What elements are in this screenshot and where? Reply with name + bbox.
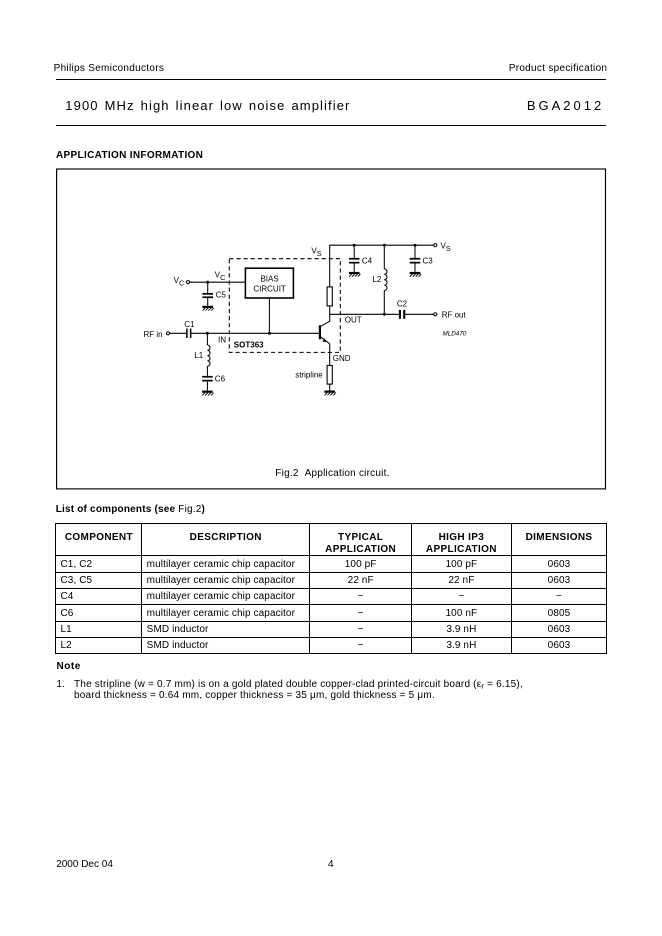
wire OUT to C2	[330, 313, 399, 315]
svg-text:C6: C6	[215, 375, 226, 384]
figure frame	[57, 169, 606, 489]
terminal RF out	[434, 313, 437, 316]
label BIAS CIRCUIT	[253, 275, 286, 294]
transistor Q1 collector lead	[321, 314, 330, 326]
package outline SOT363 dashed box	[229, 259, 340, 353]
svg-text:MLD470: MLD470	[443, 331, 467, 338]
footer	[56, 860, 113, 870]
capacitor C2	[399, 310, 405, 319]
list of components heading	[56, 505, 205, 515]
wire emitter to stripline	[329, 344, 331, 366]
wire C5 branch	[207, 282, 209, 293]
wire bias circuit output to base node	[268, 298, 270, 333]
svg-text:OUT: OUT	[345, 315, 362, 324]
svg-text:C2: C2	[397, 300, 408, 309]
page header	[54, 64, 165, 74]
note	[57, 662, 81, 672]
junction L2/OUT	[383, 313, 386, 316]
svg-text:VS: VS	[311, 246, 321, 258]
svg-text:RF out: RF out	[442, 310, 467, 319]
svg-text:L1: L1	[194, 351, 203, 360]
inductor L2	[384, 269, 387, 291]
ground (stripline)	[324, 391, 336, 396]
ground (C5)	[202, 306, 214, 311]
wire C1 to transistor base	[191, 332, 319, 334]
junction rail/C3	[414, 244, 417, 247]
wire L2 to OUT node	[383, 291, 385, 315]
transistor Q1 base bar and emitter arrow	[319, 325, 327, 342]
wire resistor to OUT node	[329, 306, 331, 314]
capacitor C1	[186, 329, 191, 338]
ground (C3)	[410, 272, 422, 277]
svg-text:C1: C1	[184, 320, 195, 329]
capacitor C5	[202, 293, 213, 298]
wire C4 to ground	[353, 264, 355, 272]
junction C1/L1	[206, 332, 209, 335]
wire C4 branch	[353, 245, 355, 258]
resistor (bias collector feed)	[327, 287, 332, 306]
wire C2 to RF out	[405, 313, 434, 315]
terminal RF in	[166, 332, 169, 335]
ground (C6)	[202, 391, 214, 396]
svg-text:CIRCUIT: CIRCUIT	[253, 284, 286, 293]
bias circuit block	[245, 268, 293, 298]
ground (C4)	[349, 272, 361, 277]
wire VS supply rail	[330, 245, 434, 287]
terminal VC	[186, 281, 189, 284]
junction bias output/base	[268, 332, 271, 335]
wire C3 to ground	[414, 264, 416, 272]
wire L2 branch	[383, 245, 385, 269]
svg-text:RF in: RF in	[144, 330, 163, 339]
svg-text:Fig.2 Application circuit.: Fig.2 Application circuit.	[275, 468, 389, 479]
svg-text:L2: L2	[372, 275, 381, 284]
junction rail/L2	[383, 244, 386, 247]
wire stripline to ground	[329, 384, 331, 390]
capacitor C4	[349, 258, 360, 264]
stripline stub	[327, 366, 332, 385]
svg-text:VC: VC	[174, 276, 185, 288]
wire L1 to C6	[206, 366, 208, 376]
svg-text:IN: IN	[218, 335, 226, 344]
svg-text:VS: VS	[441, 241, 451, 253]
svg-text:C5: C5	[216, 291, 227, 300]
junction rail/C4	[353, 244, 356, 247]
svg-text:C4: C4	[362, 256, 373, 265]
svg-text:VC: VC	[215, 271, 226, 282]
wire RF in to C1	[169, 332, 186, 334]
wire L1 branch	[206, 333, 208, 345]
terminal VS	[434, 244, 437, 247]
inductor L1	[207, 345, 210, 366]
svg-text:GND: GND	[333, 354, 351, 363]
wire VC terminal to bias circuit	[189, 281, 245, 283]
wire C5 to ground	[207, 298, 209, 306]
wire C3 branch	[414, 245, 416, 258]
capacitor C6	[202, 376, 213, 382]
capacitor C3	[410, 258, 421, 264]
wire C6 to ground	[206, 382, 208, 391]
svg-text:stripline: stripline	[295, 370, 323, 379]
svg-text:C3: C3	[423, 256, 434, 265]
junction VC/C5	[206, 281, 209, 284]
svg-text:SOT363: SOT363	[234, 340, 264, 349]
svg-text:BIAS: BIAS	[260, 275, 278, 284]
transistor Q1 emitter lead	[321, 337, 330, 344]
components table	[55, 523, 607, 655]
